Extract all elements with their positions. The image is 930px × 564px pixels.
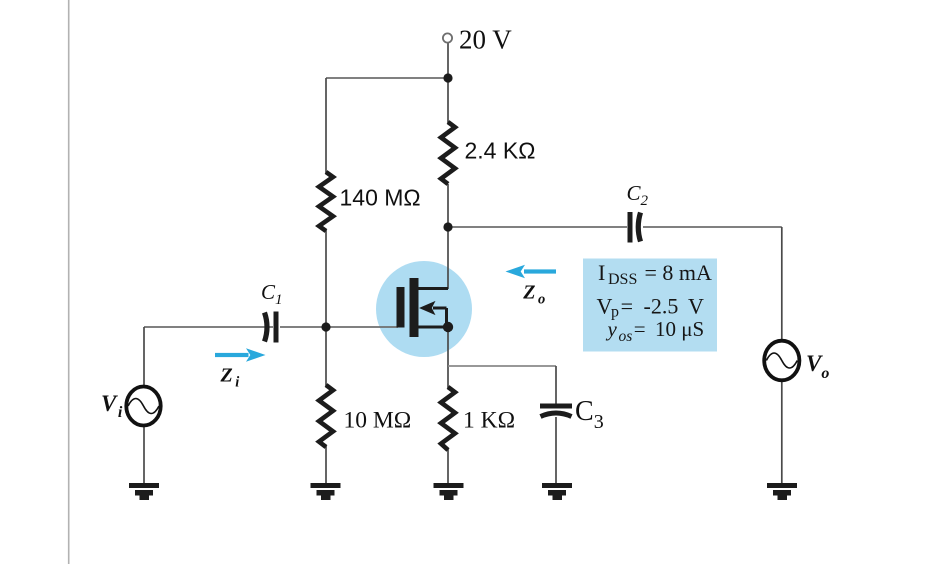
svg-text:10 MΩ: 10 MΩ [344, 408, 412, 434]
svg-text:140 MΩ: 140 MΩ [340, 185, 421, 211]
svg-text:20 V: 20 V [459, 25, 512, 55]
svg-text:2.4 KΩ: 2.4 KΩ [465, 138, 536, 164]
svg-text:1 KΩ: 1 KΩ [463, 408, 515, 434]
